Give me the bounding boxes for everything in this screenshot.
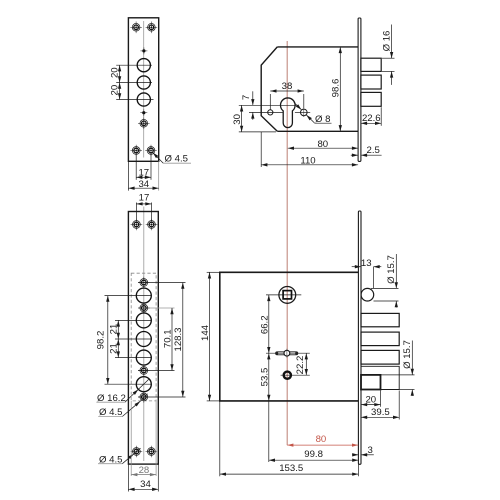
svg-text:110: 110 [300,156,315,167]
svg-text:Ø 4.5: Ø 4.5 [165,154,188,165]
svg-text:Ø 8: Ø 8 [315,114,330,125]
svg-text:Ø 4.5: Ø 4.5 [99,454,122,465]
svg-text:28: 28 [139,465,150,476]
svg-text:Ø 16.2: Ø 16.2 [97,393,126,404]
svg-text:70.1: 70.1 [162,329,173,348]
svg-text:20: 20 [365,394,376,405]
svg-text:80: 80 [317,139,328,150]
svg-text:3: 3 [368,445,373,456]
svg-text:20: 20 [110,67,121,78]
svg-text:34: 34 [140,479,151,490]
svg-text:2.5: 2.5 [367,145,380,156]
svg-text:13: 13 [361,258,372,269]
svg-text:144: 144 [200,324,211,341]
svg-text:Ø 15.7: Ø 15.7 [386,255,397,284]
svg-text:34: 34 [138,179,149,190]
svg-text:Ø 4.5: Ø 4.5 [99,407,122,418]
svg-text:99.8: 99.8 [304,449,323,460]
svg-text:53.5: 53.5 [259,368,270,387]
svg-text:Ø 16: Ø 16 [382,31,393,52]
svg-text:30: 30 [232,114,243,125]
svg-text:128.3: 128.3 [173,327,184,351]
svg-text:20: 20 [110,85,121,96]
svg-text:38: 38 [282,81,293,92]
svg-text:98.6: 98.6 [331,79,342,98]
svg-text:66.2: 66.2 [259,315,270,334]
svg-text:153.5: 153.5 [279,463,303,474]
svg-text:80: 80 [316,434,327,445]
svg-text:22.6: 22.6 [362,113,381,124]
svg-text:98.2: 98.2 [96,331,107,350]
svg-text:22.2: 22.2 [295,356,306,375]
svg-text:7: 7 [241,95,252,100]
svg-text:17: 17 [138,168,149,179]
svg-text:21: 21 [109,343,120,354]
svg-text:Ø 15.7: Ø 15.7 [402,340,413,369]
svg-text:39.5: 39.5 [371,407,390,418]
svg-text:21: 21 [109,324,120,335]
svg-text:17: 17 [139,193,150,204]
